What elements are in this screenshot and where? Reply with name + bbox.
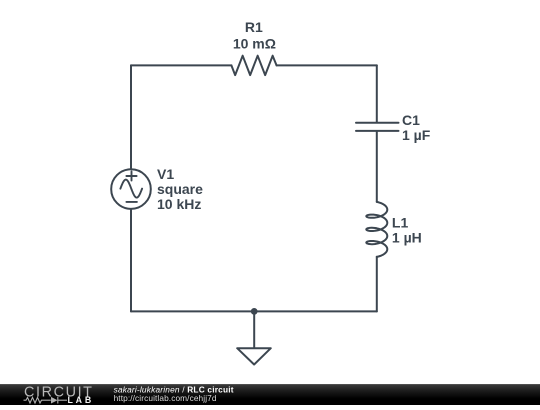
wire inductor to bottom-right corner: [376, 257, 378, 312]
ground triangle: [237, 348, 271, 364]
voltage source V1 circle: [111, 169, 151, 209]
svg-text:1 µF: 1 µF: [402, 127, 431, 143]
svg-text:L1: L1: [392, 214, 409, 230]
wire capacitor to inductor: [376, 131, 378, 202]
V1 minus sign: [126, 201, 136, 203]
V1 plus sign: [126, 172, 136, 181]
bottom wire: [131, 310, 377, 312]
logo diode bar: [57, 397, 59, 404]
svg-text:1 µH: 1 µH: [392, 229, 422, 245]
svg-text:C1: C1: [402, 112, 420, 128]
wire top-left to resistor: [131, 64, 231, 66]
ground stub wire: [253, 311, 255, 348]
logo diode triangle: [51, 397, 58, 404]
wire resistor to top-right corner: [277, 64, 377, 66]
logo resistor zigzag: [24, 397, 51, 403]
footer bar: [0, 384, 540, 405]
resistor R1: [231, 56, 276, 75]
junction node dot: [251, 308, 258, 315]
svg-text:R1: R1: [245, 19, 263, 35]
footer bar top edge line: [0, 384, 540, 385]
svg-text:square: square: [157, 181, 203, 197]
capacitor C1: [356, 123, 399, 131]
left wire lower (source to bottom): [130, 209, 132, 312]
left wire upper (top to source): [130, 65, 132, 169]
inductor L1: [366, 202, 387, 257]
svg-text:LAB: LAB: [68, 395, 94, 405]
logo diode wire: [58, 399, 67, 401]
wire right down to capacitor: [376, 65, 378, 122]
svg-text:V1: V1: [157, 166, 174, 182]
V1 sine symbol: [120, 180, 142, 198]
svg-text:10 mΩ: 10 mΩ: [233, 35, 276, 51]
svg-text:10 kHz: 10 kHz: [157, 196, 201, 212]
svg-text:http://circuitlab.com/cehjj7d: http://circuitlab.com/cehjj7d: [114, 393, 217, 403]
